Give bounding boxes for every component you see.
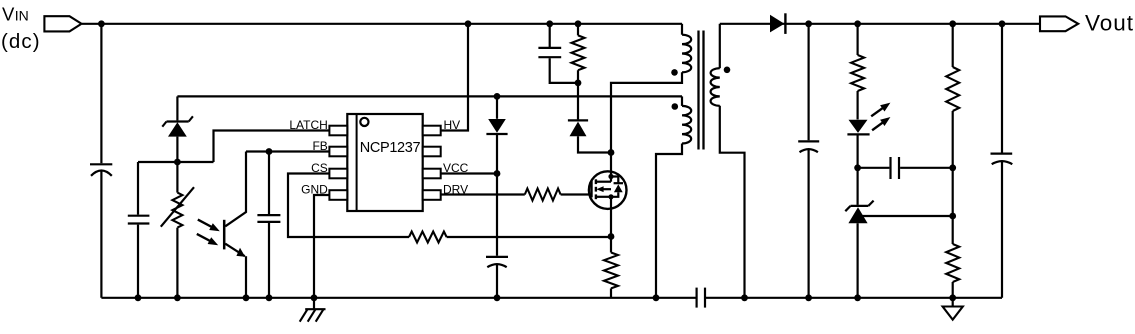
svg-text:V: V xyxy=(2,3,15,24)
svg-text:(dc): (dc) xyxy=(1,30,41,53)
svg-text:GND: GND xyxy=(301,183,328,197)
svg-text:IN: IN xyxy=(15,7,29,23)
svg-text:LATCH: LATCH xyxy=(289,118,327,132)
svg-text:HV: HV xyxy=(444,118,461,132)
svg-text:DRV: DRV xyxy=(443,183,468,197)
svg-text:Vout: Vout xyxy=(1085,10,1134,35)
svg-text:NCP1237: NCP1237 xyxy=(360,140,421,156)
svg-text:FB: FB xyxy=(312,139,327,153)
svg-text:CS: CS xyxy=(311,161,328,175)
svg-text:VCC: VCC xyxy=(443,161,469,175)
